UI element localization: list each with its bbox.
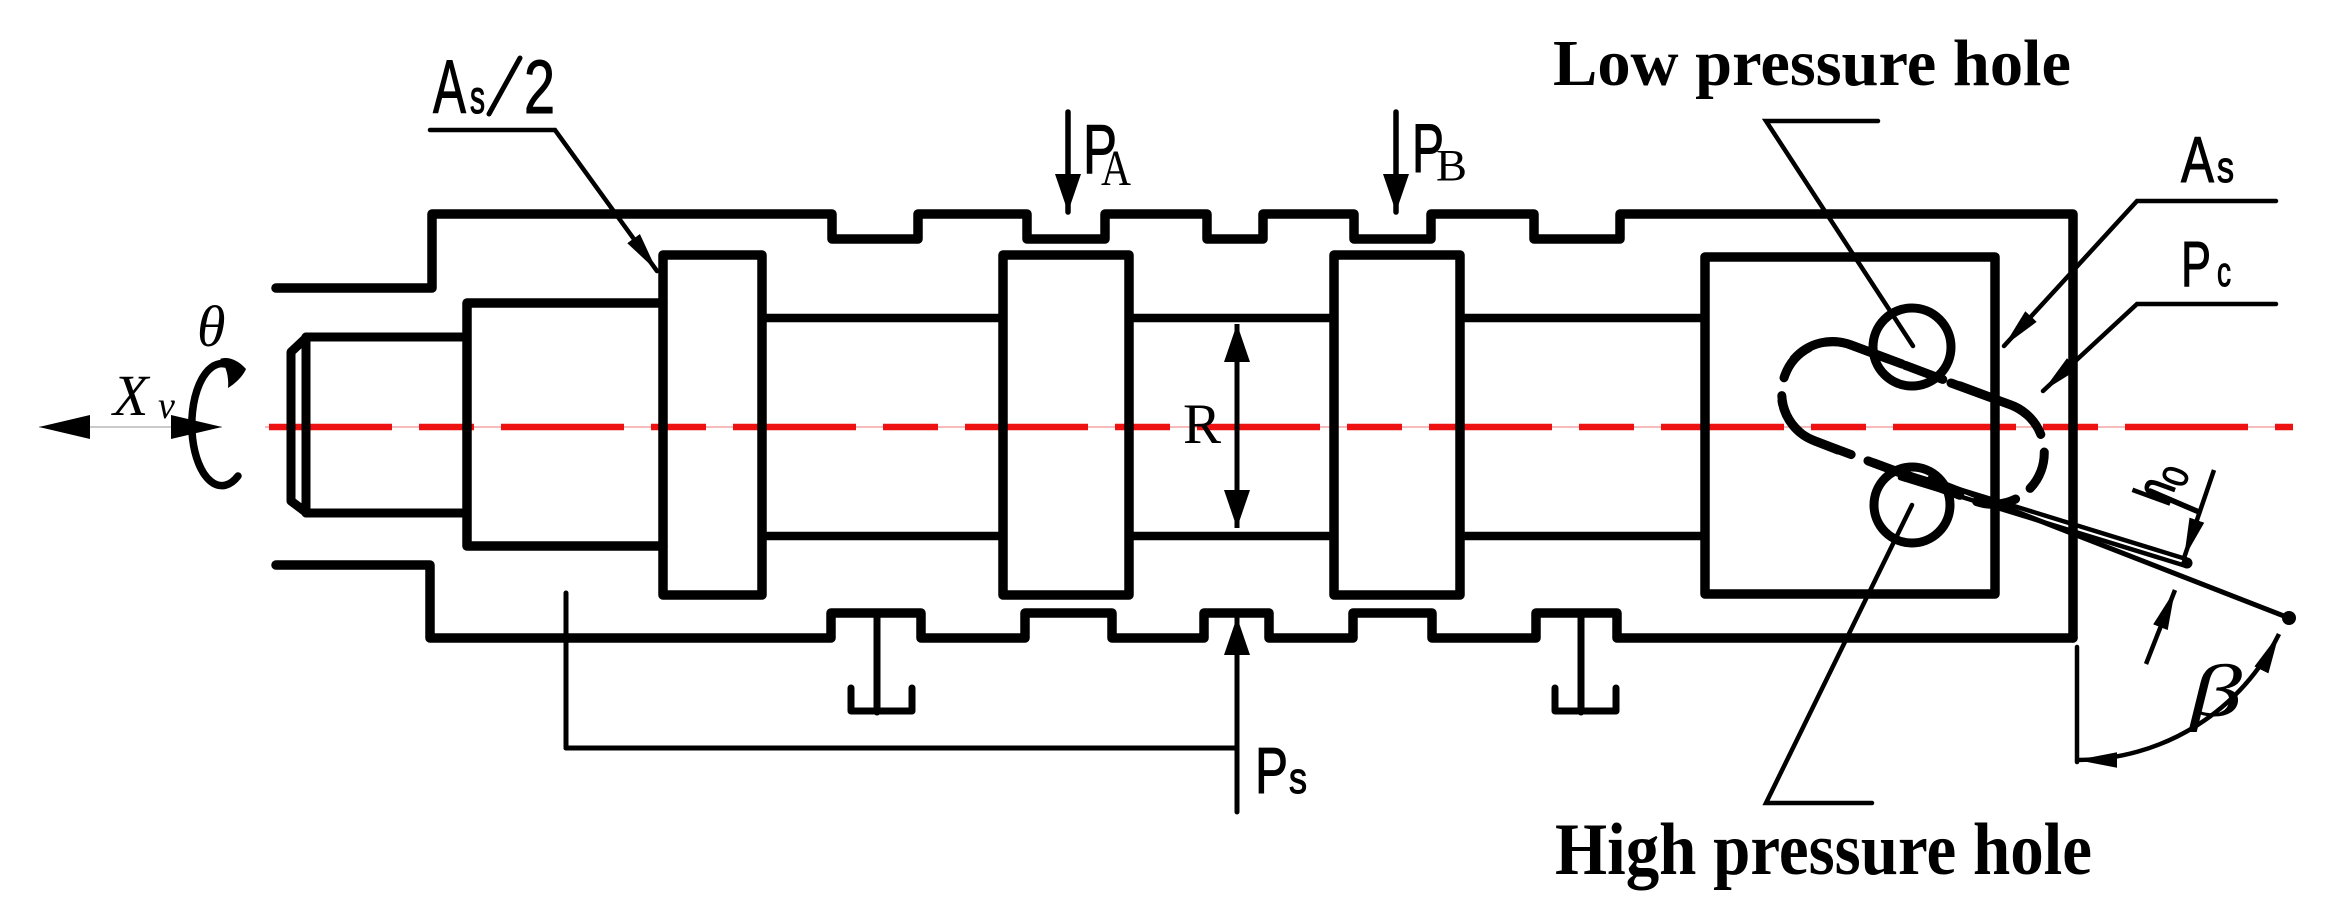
land 1 (663, 255, 762, 595)
svg-text:R: R (1183, 393, 1221, 456)
beta arc (2077, 634, 2279, 760)
As/2 leader (430, 130, 657, 271)
high pressure hole circle (1874, 467, 1950, 543)
svg-text:2: 2 (524, 45, 555, 130)
spool shaft lines (762, 318, 1705, 536)
beta line (1930, 478, 2289, 618)
svg-text:B: B (1436, 141, 1467, 190)
beta extension vertical (2075, 647, 2080, 762)
PA arrow (1065, 112, 1071, 212)
high pressure leader (1766, 505, 1912, 803)
theta arrowhead (220, 358, 246, 388)
PB arrow (1393, 112, 1399, 212)
Ps leader (566, 593, 1237, 812)
centerline (faint continuous) (265, 426, 2293, 428)
Xv arrow (39, 426, 222, 428)
svg-text:A: A (2181, 123, 2214, 196)
As right leader (2004, 201, 2276, 346)
svg-text:P: P (1255, 734, 1288, 807)
theta rotation arrow (192, 364, 238, 486)
svg-text:Low pressure hole: Low pressure hole (1553, 27, 2071, 100)
svg-text:A: A (1101, 141, 1131, 197)
As/2 slash stroke (489, 58, 520, 114)
svg-text:β: β (2187, 651, 2242, 733)
land 2 (1003, 255, 1129, 595)
tank symbol right (1555, 616, 1616, 712)
centerline (red dashes) (269, 424, 2293, 431)
beta line end dot (2282, 611, 2296, 625)
spool big section (467, 303, 663, 546)
flapper (1884, 466, 2186, 566)
flapper end dot (2182, 558, 2193, 569)
low pressure leader (1766, 121, 1913, 346)
svg-text:v: v (158, 385, 175, 427)
spool end cap (291, 337, 467, 513)
Pc leader (2043, 304, 2276, 391)
h0 dimension (2150, 491, 2199, 512)
svg-text:s: s (1289, 754, 1307, 803)
svg-text:A: A (433, 45, 466, 130)
svg-text:P: P (2181, 228, 2211, 300)
svg-text:θ: θ (197, 294, 226, 359)
dashed stadium slot (1782, 342, 2045, 505)
land 3 (1334, 255, 1460, 595)
svg-text:X: X (111, 363, 151, 428)
svg-text:s: s (470, 71, 485, 123)
housing bottom outline (276, 565, 2073, 638)
svg-text:c: c (2217, 248, 2231, 295)
housing top outline (276, 214, 2073, 638)
R dimension (1235, 324, 1240, 528)
svg-text:High pressure hole: High pressure hole (1555, 809, 2092, 891)
right block (1705, 257, 1995, 594)
low pressure hole circle (1873, 308, 1951, 386)
tank symbol left (851, 616, 912, 712)
svg-text:s: s (2217, 143, 2234, 192)
